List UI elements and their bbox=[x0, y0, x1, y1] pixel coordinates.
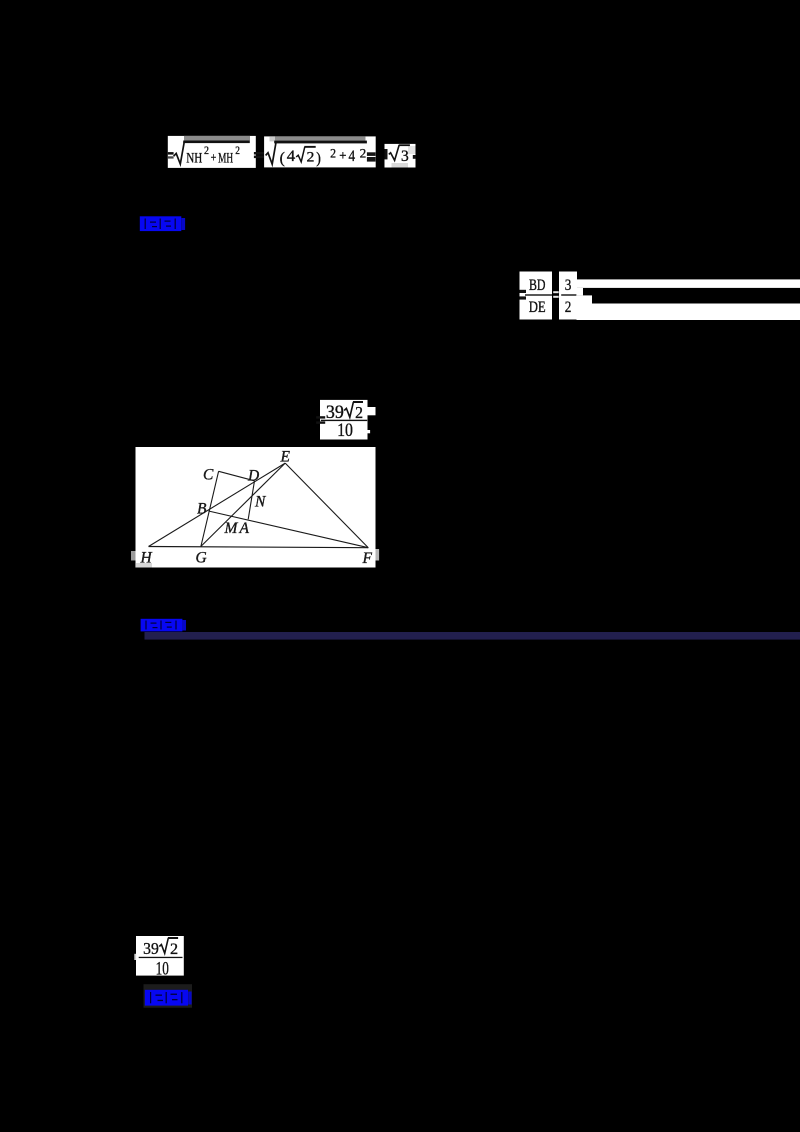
white highlight stripe 2 bbox=[577, 304, 800, 321]
line H-E through B,D bbox=[149, 463, 286, 546]
svg-text:A: A bbox=[239, 520, 250, 537]
svg-text:2: 2 bbox=[235, 143, 240, 157]
svg-text:E: E bbox=[280, 449, 291, 466]
svg-text:10: 10 bbox=[337, 421, 353, 441]
svg-text:2: 2 bbox=[565, 299, 572, 316]
svg-text:2: 2 bbox=[204, 143, 209, 157]
svg-text:BD: BD bbox=[529, 277, 546, 294]
white highlight stripe 1 bbox=[577, 279, 800, 288]
white notch at fraction bar level bbox=[577, 288, 584, 296]
equals between box1 and box2 (split over black gap) bbox=[254, 152, 266, 158]
svg-text:3: 3 bbox=[401, 148, 409, 165]
svg-text:4: 4 bbox=[349, 148, 356, 165]
white notch right of box 6 bbox=[368, 407, 376, 415]
blue label 1 bbox=[140, 216, 185, 231]
equation image box 4: BD/DE fraction bbox=[520, 272, 553, 320]
svg-text:N: N bbox=[254, 494, 267, 511]
blue label 2 bbox=[141, 619, 186, 632]
svg-text:+: + bbox=[211, 149, 217, 164]
equation image box 2: sqrt((4sqrt2)^2+4^2) bbox=[264, 136, 376, 167]
svg-text:2: 2 bbox=[170, 941, 178, 958]
svg-text:NH: NH bbox=[186, 149, 202, 166]
svg-text:): ) bbox=[316, 150, 321, 167]
line C-G through B bbox=[201, 471, 219, 546]
svg-text:DE: DE bbox=[529, 299, 546, 316]
equation image box 3: sqrt(3) bbox=[385, 144, 417, 168]
svg-text:2: 2 bbox=[355, 403, 363, 422]
svg-text:C: C bbox=[203, 467, 214, 484]
line G-E through M,N bbox=[201, 463, 285, 546]
navy underline stripe bbox=[145, 632, 800, 640]
svg-text:2: 2 bbox=[307, 149, 315, 165]
line B-F through M,A bbox=[209, 511, 369, 548]
line C-D bbox=[219, 471, 255, 481]
white equals in gap bbox=[553, 291, 559, 298]
svg-text:3: 3 bbox=[565, 277, 572, 294]
line D-A through N bbox=[248, 481, 254, 520]
svg-text:F: F bbox=[362, 550, 373, 567]
svg-text:4: 4 bbox=[287, 148, 296, 165]
svg-text:10: 10 bbox=[156, 960, 169, 980]
line E-F bbox=[285, 463, 368, 548]
svg-text:2: 2 bbox=[360, 145, 367, 160]
svg-text:39: 39 bbox=[143, 939, 159, 958]
svg-text:B: B bbox=[197, 501, 207, 518]
svg-text:MH: MH bbox=[218, 149, 233, 166]
equation image box 5: 3/2 fraction bbox=[559, 272, 577, 320]
svg-text:(: ( bbox=[280, 150, 285, 167]
svg-text:H: H bbox=[140, 550, 153, 567]
equals between box2 and box3 bbox=[367, 152, 376, 161]
svg-text:M: M bbox=[224, 520, 239, 537]
svg-text:+: + bbox=[339, 148, 346, 163]
equation image box 1: =sqrt(NH^2+MH^2) bbox=[168, 136, 256, 168]
blue label 3 bbox=[145, 990, 192, 1006]
svg-text:D: D bbox=[247, 468, 259, 485]
dark backing of blue label 3 bbox=[144, 984, 193, 1008]
equation image box 7: 39sqrt2/10 fraction (bottom) bbox=[134, 936, 184, 980]
figure image box: triangle diagram bbox=[131, 447, 379, 568]
svg-text:2: 2 bbox=[330, 146, 336, 161]
line H-F bbox=[149, 547, 369, 548]
svg-text:G: G bbox=[196, 550, 207, 567]
equation image box 6: 39sqrt2/10 fraction bbox=[316, 400, 367, 441]
